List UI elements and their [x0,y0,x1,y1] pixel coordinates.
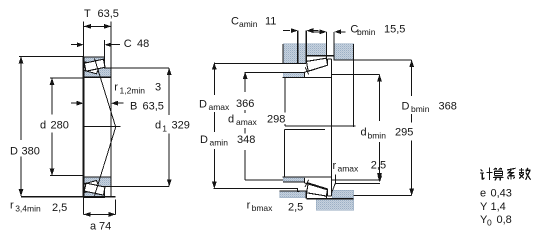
svg-text:2,5: 2,5 [371,160,386,172]
svg-text:329: 329 [172,120,190,132]
cone rib front face lower [327,190,329,196]
bottom extension line to fillet [214,189,300,192]
bore line lower [84,176,112,178]
dimension B line [71,102,77,104]
svg-text:bmin: bmin [357,27,376,37]
svg-text:298: 298 [267,113,285,125]
housing block bottom-right lower [316,199,354,210]
housing shoulder block bottom-left [280,191,306,198]
shaft body bottom edge / centerline [285,125,355,127]
bore line upper [84,76,112,78]
shaft body top edge lower half [284,128,325,130]
dimension C_bmin line [314,31,320,33]
cup upper raceway [306,59,326,64]
svg-text:bmin: bmin [411,104,430,114]
housing bore / cup OD contact line upper [306,55,334,57]
dimension D_amax line [213,63,215,96]
cup OD contact line lower [306,198,353,200]
cone front face upper [304,73,306,78]
svg-text:2,5: 2,5 [288,202,303,214]
dimension D_bmin extension lower [354,195,412,197]
shoulder strip bottom edge + extension [245,179,283,181]
svg-text:368: 368 [439,101,457,113]
contact line upper [95,59,116,128]
svg-text:1,2min: 1,2min [120,86,146,96]
dimension D line [20,57,22,141]
roller upper [306,58,327,71]
svg-text:D: D [10,146,18,158]
housing shoulder block top-left [283,44,306,64]
svg-text:T: T [84,8,91,20]
svg-text:C: C [124,38,132,50]
cone rib top lower [328,195,332,197]
svg-text:74: 74 [99,221,111,233]
svg-text:48: 48 [137,38,149,50]
svg-text:2,5: 2,5 [52,202,67,214]
dimension a extensions [83,197,85,214]
cage line upper [305,67,309,74]
dimension D extensions [19,56,84,58]
svg-text:11: 11 [265,16,276,28]
dimension a line [84,213,116,215]
svg-text:e: e [480,188,486,200]
dimension line x=245 (d_a) [244,72,246,92]
svg-text:3: 3 [155,82,161,94]
svg-text:63,5: 63,5 [98,8,119,20]
svg-text:amax: amax [338,163,360,173]
svg-text:15,5: 15,5 [384,23,405,35]
label 算 [493,168,504,181]
dimension T extension left [83,22,85,57]
svg-text:C: C [231,16,239,28]
housing block bottom-right upper [332,190,354,197]
roller upper section [84,59,105,71]
inner ring (cone) upper section [84,64,112,77]
housing block top-middle [307,44,327,56]
dimension d line [51,78,53,115]
shaft surface / bore line lower [283,176,332,178]
svg-text:a: a [90,221,97,233]
svg-text:amax: amax [236,117,258,127]
svg-text:Y: Y [480,201,488,213]
dimension D_bmin line [411,60,413,96]
outer ring (cup) upper section [84,57,105,67]
svg-text:0,8: 0,8 [497,214,512,226]
inner ring (cone) lower section [84,177,112,190]
roller lower [307,183,328,196]
cone rib front face upper [327,59,329,65]
cup lower raceway [306,191,326,196]
shaft body left face lower [283,129,285,176]
svg-text:d: d [40,120,46,132]
label 系 [507,168,516,179]
svg-text:1: 1 [162,124,167,134]
dimension C extension [104,40,106,57]
svg-text:D: D [200,134,208,146]
svg-text:366: 366 [236,98,254,110]
svg-text:r: r [10,200,14,212]
centerline [84,126,121,128]
svg-text:r: r [247,200,251,212]
outer ring (cup) lower section [84,188,105,198]
roller lower section [84,183,105,195]
svg-text:amin: amin [210,138,229,148]
dimension d extensions [50,77,84,79]
svg-text:d: d [361,127,367,139]
cage line lower [305,180,309,187]
cup upper back face [326,56,328,59]
cone rib top upper [328,58,332,60]
cone raceway lower [305,183,328,190]
svg-text:63,5: 63,5 [143,100,164,112]
svg-text:bmax: bmax [252,203,274,213]
svg-text:d: d [228,113,234,125]
dimension C line [71,44,78,46]
svg-text:d: d [155,120,161,132]
right face line [110,22,112,198]
svg-text:r: r [333,160,337,172]
dimension d_bmin extensions [332,74,380,76]
svg-text:348: 348 [237,134,255,146]
svg-text:D: D [199,99,207,111]
svg-text:280: 280 [51,120,69,132]
svg-text:r: r [114,82,118,94]
housing shoulder block top-right [334,44,353,60]
C_bmin extensions [326,32,328,56]
svg-text:295: 295 [395,127,413,139]
svg-text:bmin: bmin [368,131,387,141]
label 计 [480,168,493,181]
svg-text:3,4min: 3,4min [15,204,41,214]
shaft surface / bore line upper [283,76,332,78]
dimension d1 line [168,68,170,115]
svg-text:0,43: 0,43 [491,188,512,200]
shaft shoulder strip lower [283,177,305,182]
dimension C_amin line [283,30,290,32]
bearing back face line [331,59,333,196]
svg-text:380: 380 [22,146,40,158]
svg-text:amax: amax [209,102,231,112]
cup lower: front face [305,190,307,198]
svg-text:1,4: 1,4 [491,201,506,213]
r_amax leader [335,182,380,184]
svg-text:0: 0 [487,218,492,228]
housing block right face extended to centerline [353,44,355,127]
svg-text:B: B [130,100,137,112]
shaft body left face upper [284,77,286,112]
dimension T line [84,25,111,27]
contact line lower [95,127,116,196]
dimension d1 extensions (rib faces) [111,67,169,69]
cone front face lower [304,178,306,183]
C_amin extensions [297,31,299,64]
label 数 [519,168,531,180]
left face line [83,57,85,197]
housing block left face [282,44,284,64]
block R bottom edge + D_bmin extension [334,59,412,61]
dimension d_bmin line [379,75,381,122]
svg-text:amin: amin [239,19,258,29]
housing shoulder face line (D_a) with extension to D_amax dim [214,63,306,65]
cup lower back face [326,197,328,199]
shaft shoulder strip upper [283,73,305,78]
cone raceway upper [305,65,328,72]
shaft shoulder surface line + extension (d_a) [245,72,304,74]
svg-text:D: D [402,101,410,113]
